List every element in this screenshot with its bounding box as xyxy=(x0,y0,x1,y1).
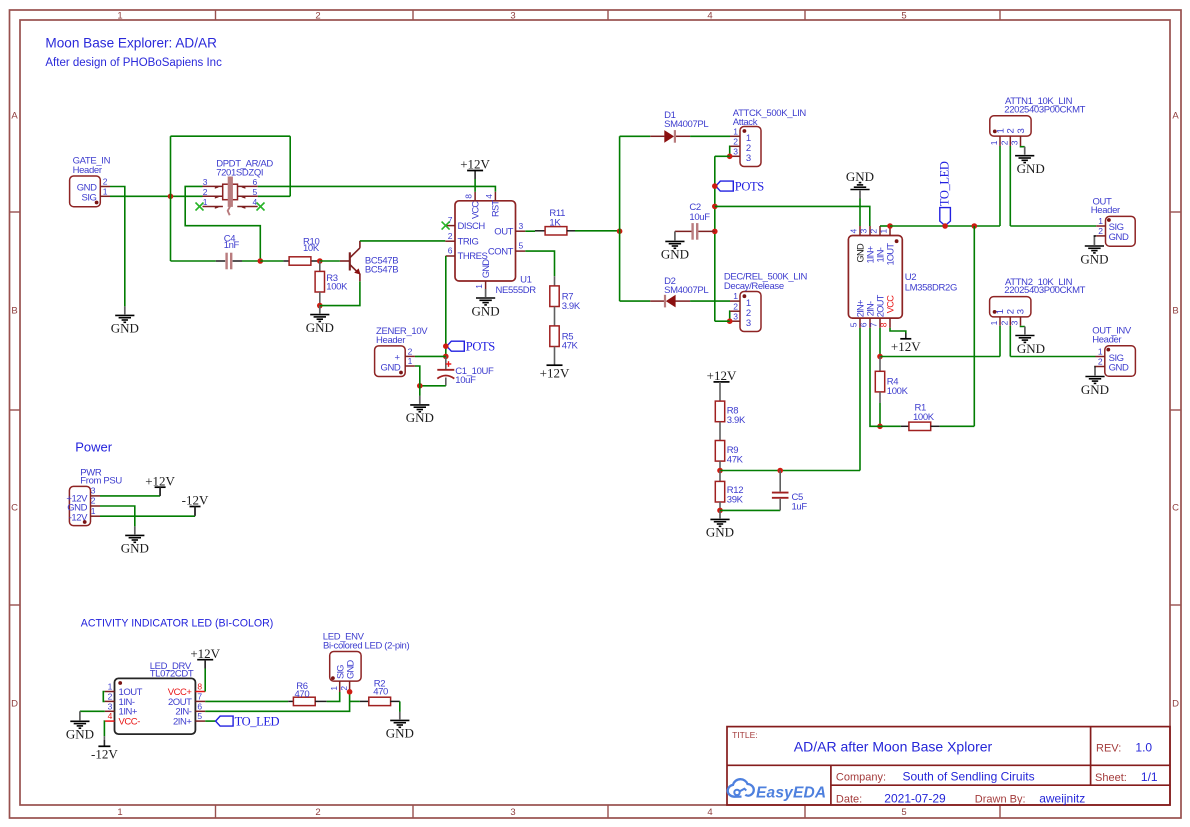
svg-text:7: 7 xyxy=(197,692,202,702)
connector ATTN1 body xyxy=(990,116,1031,136)
resistor R5 xyxy=(550,326,559,347)
svg-text:2: 2 xyxy=(203,187,208,197)
svg-text:SM4007PL: SM4007PL xyxy=(664,285,708,296)
ground GND at LED_DRV 1IN+ xyxy=(66,711,94,741)
svg-text:GND: GND xyxy=(472,303,500,318)
wire divider mid to U2 2IN+ xyxy=(720,470,860,472)
GATE_IN pin 1 xyxy=(100,195,110,197)
connector OUT_INV body xyxy=(1105,346,1136,377)
svg-text:EasyEDA: EasyEDA xyxy=(756,785,826,802)
wire PWR GND xyxy=(100,506,135,526)
U2 pin 4 GND xyxy=(859,226,861,236)
svg-text:2021-07-29: 2021-07-29 xyxy=(884,792,946,806)
junction ZENER pin2 xyxy=(443,354,449,360)
junction C1 gnd xyxy=(417,383,423,389)
junction ATTCK wiper xyxy=(727,154,733,160)
U2 pin 5 2IN+ xyxy=(859,318,861,328)
capacitor C5 1uF xyxy=(779,471,781,492)
wire pot wiper vertical xyxy=(714,156,716,321)
wire D2 to DEC pin1 xyxy=(690,300,730,302)
svg-text:1: 1 xyxy=(108,682,113,692)
U1 pin 7 DISCH xyxy=(446,225,455,227)
svg-text:GND: GND xyxy=(481,259,491,278)
LED_ENV pin 2 xyxy=(349,681,351,692)
svg-text:1: 1 xyxy=(733,126,738,136)
LED_ENV pin 1 xyxy=(339,681,341,692)
svg-text:3: 3 xyxy=(733,146,738,156)
junction C2 xyxy=(712,229,718,235)
LED_DRV pin 2 1IN- xyxy=(105,700,115,702)
svg-text:+12V: +12V xyxy=(707,368,737,383)
wire SIG vertical to C4 row xyxy=(170,136,172,261)
svg-text:South of Sendling Ciruits: South of Sendling Ciruits xyxy=(903,770,1035,784)
ground GND at OUT_INV header xyxy=(1081,368,1109,397)
svg-text:470: 470 xyxy=(373,687,388,698)
svg-text:GND: GND xyxy=(111,321,139,336)
svg-text:D: D xyxy=(11,699,18,710)
svg-text:B: B xyxy=(1172,306,1178,317)
svg-text:6: 6 xyxy=(858,322,868,327)
wire DPDT pin5 stub run xyxy=(258,195,291,197)
DEC pin 3 xyxy=(730,320,740,322)
svg-text:4: 4 xyxy=(108,711,113,721)
svg-text:GND: GND xyxy=(406,410,434,425)
junction OUT/diodes xyxy=(617,228,623,234)
svg-text:+12V: +12V xyxy=(190,646,220,661)
wire DEC pin2-pin3 jog xyxy=(729,311,731,321)
svg-text:Moon Base Explorer: AD/AR: Moon Base Explorer: AD/AR xyxy=(45,36,217,51)
LED_DRV pin 4 VCC- xyxy=(105,720,115,722)
svg-text:1IN-: 1IN- xyxy=(875,247,885,262)
svg-text:+12V: +12V xyxy=(145,473,175,488)
junction LED_ENV pin2 xyxy=(347,689,353,695)
svg-text:3: 3 xyxy=(519,221,524,231)
wire DPDT pin3 loop xyxy=(185,186,260,261)
wire ATTN1 pin3 to GND xyxy=(1021,145,1025,148)
svg-text:1: 1 xyxy=(103,186,108,196)
power -12V at PWR xyxy=(182,493,209,515)
ATTN1 pin 1 xyxy=(999,136,1001,146)
op-amp U1 NE555DR body xyxy=(455,201,516,281)
svg-text:TRIG: TRIG xyxy=(458,236,479,247)
wire C1 bottom xyxy=(420,385,446,387)
wire OUT_INV pin2 to GND xyxy=(1094,367,1097,368)
U1 pin 5 CONT xyxy=(516,250,526,252)
DPDT pin 1 xyxy=(203,206,223,208)
junction 1OUT xyxy=(887,223,893,229)
U1 pin 6 THRES xyxy=(446,255,455,257)
svg-text:GND: GND xyxy=(1081,382,1109,397)
wire THRES down xyxy=(445,256,447,356)
svg-text:GND: GND xyxy=(1017,341,1045,356)
U2 pin 6 2IN- xyxy=(869,318,871,328)
svg-text:OUT: OUT xyxy=(494,226,513,237)
junction R12 bottom xyxy=(717,508,723,514)
capacitor C2 10uF xyxy=(675,230,692,232)
svg-text:TO_LED: TO_LED xyxy=(235,714,280,728)
DPDT pin 2 xyxy=(203,195,223,197)
wire R12 bottom to C5 xyxy=(720,509,780,511)
svg-text:2: 2 xyxy=(91,496,96,506)
svg-text:VCC: VCC xyxy=(470,201,480,219)
svg-text:1: 1 xyxy=(117,807,122,818)
wire 2IN- to LED_ENV pin2 xyxy=(205,692,349,711)
svg-text:2: 2 xyxy=(315,10,320,21)
resistor R4 xyxy=(879,357,881,372)
no-connect X on DPDT pin 4 xyxy=(257,203,265,211)
svg-text:3: 3 xyxy=(510,807,515,818)
svg-text:1: 1 xyxy=(989,320,999,325)
OUT_INV pin 1 xyxy=(1096,356,1105,358)
DPDT pin 5 xyxy=(237,195,257,197)
wire loop down to DPDT pin5 xyxy=(289,136,291,196)
ground GND at ATTN2 xyxy=(1015,327,1045,356)
wire ATTCK wiper left xyxy=(715,155,730,157)
LED_DRV pin 3 1IN+ xyxy=(105,710,115,712)
svg-text:SIG: SIG xyxy=(336,665,346,679)
svg-text:5: 5 xyxy=(848,322,858,327)
PWR pin 3 xyxy=(91,495,101,497)
svg-text:AD/AR after Moon Base Xplorer: AD/AR after Moon Base Xplorer xyxy=(794,739,993,755)
ground GND at ATTN1 xyxy=(1015,147,1045,176)
svg-text:3: 3 xyxy=(510,10,515,21)
junction SIG xyxy=(168,194,174,200)
svg-text:7: 7 xyxy=(868,322,878,327)
ground GND at PWR xyxy=(121,526,149,555)
resistor R2 xyxy=(360,700,369,702)
svg-text:3: 3 xyxy=(1010,140,1020,145)
wire diode vertical xyxy=(619,136,621,301)
connector ATTN2 body xyxy=(990,297,1031,317)
wire 2OUT to ATTN2 pin1 xyxy=(880,356,1000,358)
LED_DRV pin 5 2IN+ xyxy=(195,720,205,722)
connector ZENER_10V body xyxy=(375,346,406,377)
wire VCC+ to +12V xyxy=(204,669,206,692)
svg-text:5: 5 xyxy=(253,187,258,197)
svg-text:3: 3 xyxy=(746,318,751,329)
svg-text:3: 3 xyxy=(108,701,113,711)
svg-text:8: 8 xyxy=(464,194,474,199)
svg-text:C: C xyxy=(1172,503,1179,514)
ground GND at C1 xyxy=(406,396,434,425)
svg-text:VCC: VCC xyxy=(885,295,895,313)
ATTCK pin 1 xyxy=(730,135,740,137)
wire R1 vertical xyxy=(973,226,975,426)
wire C4 to junction xyxy=(242,260,260,262)
svg-text:8: 8 xyxy=(197,682,202,692)
junction C4 out xyxy=(258,258,264,264)
wire SIG net horizontal xyxy=(110,195,203,197)
DEC pin 2 xyxy=(730,310,740,312)
svg-text:47K: 47K xyxy=(562,341,579,352)
svg-text:5: 5 xyxy=(197,711,202,721)
svg-text:GND: GND xyxy=(306,320,334,335)
PWR pin 1 xyxy=(91,515,101,517)
svg-text:1uF: 1uF xyxy=(792,501,808,512)
svg-text:1nF: 1nF xyxy=(224,240,240,251)
svg-text:100K: 100K xyxy=(887,386,909,397)
power +12V at R8 xyxy=(707,368,737,383)
svg-text:2: 2 xyxy=(1000,320,1010,325)
junction DEC wiper xyxy=(727,318,733,324)
svg-text:10uF: 10uF xyxy=(689,212,710,223)
DPDT pin 4 xyxy=(237,206,257,208)
wire ATTN2 pin2 down xyxy=(1009,326,1011,357)
svg-text:100K: 100K xyxy=(913,412,935,423)
svg-text:2: 2 xyxy=(1098,226,1103,236)
DPDT pin 6 xyxy=(237,185,257,187)
ATTN1 pin 2 xyxy=(1009,136,1011,146)
svg-text:3: 3 xyxy=(203,177,208,187)
svg-text:GND: GND xyxy=(66,727,94,742)
LED_DRV pin 6 2IN- xyxy=(195,710,205,712)
svg-text:1: 1 xyxy=(91,506,96,516)
ATTN2 pin 1 xyxy=(999,317,1001,326)
svg-text:2IN+: 2IN+ xyxy=(855,300,865,317)
svg-text:1: 1 xyxy=(1098,347,1103,357)
svg-text:SIG: SIG xyxy=(81,192,96,203)
ground GND at OUT header xyxy=(1080,237,1108,266)
svg-text:TO_LED: TO_LED xyxy=(938,161,952,206)
svg-text:Power: Power xyxy=(75,439,113,454)
ground GND at GATE_IN xyxy=(111,306,139,335)
svg-text:100K: 100K xyxy=(326,281,348,292)
svg-text:1: 1 xyxy=(733,291,738,301)
wire to GND below C1 xyxy=(419,386,421,396)
svg-text:GND: GND xyxy=(346,660,356,679)
wire R6 to LED_ENV pin1 xyxy=(327,692,340,701)
svg-text:1: 1 xyxy=(408,356,413,366)
svg-text:LM358DR2G: LM358DR2G xyxy=(905,282,957,293)
switch lever xyxy=(228,206,231,215)
power +12V below R5 xyxy=(540,365,570,380)
U2 pin 7 2OUT xyxy=(879,318,881,328)
wire 2IN+ vertical xyxy=(859,328,861,471)
ground GND at U1 pin1 xyxy=(472,289,500,318)
svg-text:1.0: 1.0 xyxy=(1135,741,1152,755)
svg-text:POTS: POTS xyxy=(466,340,495,354)
capacitor C1 10uF polarized xyxy=(445,356,447,369)
svg-text:VCC-: VCC- xyxy=(119,717,141,728)
svg-text:5: 5 xyxy=(901,10,906,21)
svg-text:3: 3 xyxy=(1016,129,1027,134)
svg-text:Bi-colored LED (2-pin): Bi-colored LED (2-pin) xyxy=(323,640,409,651)
svg-text:Date:: Date: xyxy=(836,794,862,806)
ATTN2 pin 3 xyxy=(1020,317,1022,326)
svg-text:GND: GND xyxy=(1109,363,1129,374)
junction POTS 2 xyxy=(712,183,718,189)
wire 1OUT to 1IN- jog xyxy=(103,692,105,702)
svg-text:2: 2 xyxy=(1000,140,1010,145)
EasyEDA logo xyxy=(728,779,827,801)
op-amp U2 LM358DR2G body xyxy=(848,236,902,319)
PWR pin 2 xyxy=(91,505,101,507)
junction wiper to U2 xyxy=(712,204,718,210)
svg-text:2: 2 xyxy=(315,807,320,818)
svg-text:GND: GND xyxy=(121,541,149,556)
wire 2IN- feedback xyxy=(870,328,880,426)
svg-text:GND: GND xyxy=(706,525,734,540)
wire ATTN2 pin1 down xyxy=(999,326,1001,357)
title block frame xyxy=(727,727,1170,805)
wire wiper to U2 1IN+ xyxy=(715,206,870,226)
junction R3 bottom xyxy=(317,303,323,309)
svg-text:6: 6 xyxy=(448,246,453,256)
ground GND at C2 xyxy=(661,231,689,261)
svg-text:3.9K: 3.9K xyxy=(562,301,581,312)
wire DEC wiper left xyxy=(715,320,730,322)
wire OUT pin2 to GND xyxy=(1094,236,1096,237)
DPDT pin 3 xyxy=(203,185,223,187)
resistor R7 xyxy=(550,286,559,307)
svg-text:2: 2 xyxy=(868,229,878,234)
junction R4/R1 xyxy=(877,424,883,430)
svg-text:5: 5 xyxy=(901,807,906,818)
U1 pin 2 TRIG xyxy=(445,240,455,242)
svg-text:DISCH: DISCH xyxy=(458,221,486,232)
svg-text:aweijnitz: aweijnitz xyxy=(1039,792,1085,806)
svg-text:8: 8 xyxy=(878,322,888,327)
svg-text:2: 2 xyxy=(103,177,108,187)
svg-text:-12V: -12V xyxy=(182,493,209,508)
svg-text:10uF: 10uF xyxy=(455,375,476,386)
resistor R11 xyxy=(545,227,567,235)
OUT pin 2 xyxy=(1096,235,1105,237)
svg-text:Company:: Company: xyxy=(836,771,886,783)
wire ATTN1 pin2 down xyxy=(1009,146,1011,226)
svg-text:Header: Header xyxy=(1092,334,1121,345)
net flag POTS at ATTCK xyxy=(716,181,734,191)
svg-text:47K: 47K xyxy=(727,454,744,465)
U2 pin 8 VCC xyxy=(889,318,891,328)
svg-text:Sheet:: Sheet: xyxy=(1095,772,1127,784)
power +12V at LED_DRV xyxy=(190,646,220,668)
svg-text:1K: 1K xyxy=(549,217,561,228)
svg-text:2IN-: 2IN- xyxy=(865,301,875,316)
net flag TO_LED at 2IN+ xyxy=(205,720,215,722)
svg-text:1: 1 xyxy=(203,197,208,207)
svg-text:6: 6 xyxy=(197,701,202,711)
svg-text:2OUT: 2OUT xyxy=(875,294,885,317)
net flag POTS at C1 xyxy=(447,341,465,351)
svg-text:5: 5 xyxy=(519,241,524,251)
LED_DRV pin 7 2OUT xyxy=(195,700,205,702)
resistor R12 xyxy=(719,471,721,482)
wire ATTN2 pin2 to OUT_INV header xyxy=(1010,356,1095,358)
svg-text:39K: 39K xyxy=(727,494,744,505)
wire 2OUT to R6 xyxy=(205,700,288,702)
OUT pin 1 xyxy=(1096,225,1105,227)
svg-text:GND: GND xyxy=(855,243,865,262)
power +12V at U2 xyxy=(891,333,921,354)
svg-text:2IN+: 2IN+ xyxy=(173,717,192,728)
svg-text:3: 3 xyxy=(746,153,751,164)
U2 pin 2 1IN- xyxy=(879,226,881,236)
svg-text:NE555DR: NE555DR xyxy=(496,285,537,296)
svg-text:4: 4 xyxy=(707,807,712,818)
no-connect X on DPDT pin 1 xyxy=(196,203,204,211)
svg-text:1: 1 xyxy=(878,229,888,234)
wire R1 to output net xyxy=(940,425,975,427)
connector GATE_IN body xyxy=(70,176,101,207)
junction TO_LED xyxy=(942,223,948,229)
svg-text:D: D xyxy=(1172,699,1179,710)
svg-text:4: 4 xyxy=(484,194,494,199)
power +12V at PWR xyxy=(145,473,175,495)
svg-text:POTS: POTS xyxy=(735,179,764,193)
svg-text:GND: GND xyxy=(661,247,689,262)
transistor Q1 BC547B xyxy=(340,241,360,281)
junction R1 top xyxy=(972,223,978,229)
wire emitter to R3 junction xyxy=(320,281,360,305)
svg-text:1: 1 xyxy=(989,140,999,145)
DEC pin 1 xyxy=(730,300,740,302)
svg-text:GND: GND xyxy=(1017,161,1045,176)
svg-text:4: 4 xyxy=(848,229,858,234)
wire ZENER pin2 to C1 top xyxy=(415,355,446,357)
U1 pin 4 RST xyxy=(494,192,496,201)
junction 2OUT xyxy=(877,354,883,360)
svg-text:Header: Header xyxy=(376,335,405,346)
junction C5 top xyxy=(777,468,783,474)
U1 pin 3 OUT xyxy=(516,230,526,232)
wire PWR +12V xyxy=(100,495,160,497)
ATTCK pin 2 xyxy=(730,145,740,147)
svg-text:2: 2 xyxy=(1098,357,1103,367)
op-amp LED_DRV TL072CDT body xyxy=(115,678,196,734)
svg-text:10K: 10K xyxy=(303,243,320,254)
svg-text:1: 1 xyxy=(474,284,484,289)
wire LED_ENV pin2 to R2 xyxy=(350,700,360,702)
svg-text:470: 470 xyxy=(295,689,310,700)
svg-text:TITLE:: TITLE: xyxy=(732,730,758,740)
svg-text:GND: GND xyxy=(846,169,874,184)
svg-text:Header: Header xyxy=(1091,205,1120,216)
svg-text:-12V: -12V xyxy=(91,747,118,762)
diode D2 SM4007PL xyxy=(650,300,664,302)
power -12V at LED_DRV xyxy=(91,740,118,762)
net flag TO_LED xyxy=(940,208,951,226)
svg-text:+12V: +12V xyxy=(540,366,570,381)
ATTN2 pin 2 xyxy=(1009,317,1011,326)
wire base xyxy=(320,260,340,262)
wire R2 to GND xyxy=(399,701,401,712)
wire SIG top loop horizontal xyxy=(171,135,291,137)
ZENER pin 2 xyxy=(405,355,415,357)
svg-text:U1: U1 xyxy=(520,274,532,285)
wire GATE_IN pin2 to GND xyxy=(110,187,125,307)
wire collector to TRIG xyxy=(360,240,445,242)
svg-text:GND: GND xyxy=(1109,232,1129,243)
svg-text:CONT: CONT xyxy=(488,246,514,257)
wire to D1 xyxy=(620,135,651,137)
resistor R9 xyxy=(715,441,724,462)
svg-text:3: 3 xyxy=(1010,320,1020,325)
ATTN1 pin 3 xyxy=(1020,136,1022,146)
svg-text:2: 2 xyxy=(733,136,738,146)
wire CONT xyxy=(525,251,554,276)
wire 1IN+ to GND xyxy=(80,710,105,712)
switch S1 body xyxy=(223,184,238,200)
svg-text:B: B xyxy=(11,306,17,317)
svg-text:GND: GND xyxy=(381,362,401,373)
wire ZENER pin1 to gnd net xyxy=(415,366,420,386)
no-connect X on DISCH xyxy=(442,222,450,230)
wire ATTN2 pin3 to GND xyxy=(1021,325,1025,328)
svg-text:1: 1 xyxy=(117,10,122,21)
svg-text:2: 2 xyxy=(108,692,113,702)
ATTCK pin 3 xyxy=(730,155,740,157)
